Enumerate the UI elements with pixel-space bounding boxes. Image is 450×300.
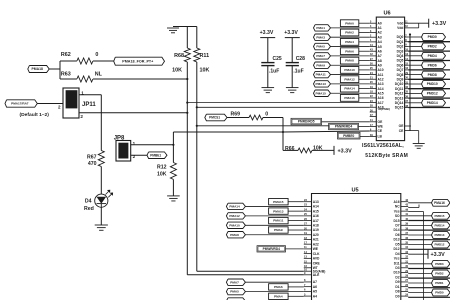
U6 pin DQ5 (pin 14) stub	[405, 60, 409, 62]
wire JP11 pin1 down to R67	[100, 95, 102, 151]
U5 pin D12 (pin 34) stub	[401, 248, 408, 250]
svg-text:PMA6: PMA6	[274, 285, 283, 289]
net flag PMA9	[269, 227, 289, 233]
wire U5 data to edge y=287.7	[408, 287, 450, 289]
svg-text:PMA4: PMA4	[274, 294, 283, 298]
wire JP8 pin1 up to CE net	[172, 132, 174, 145]
power +3.3V (U6 Vdd)	[428, 19, 430, 28]
wire row A17 from W1	[187, 102, 369, 104]
U6 pin DQ13 (pin 36) stub	[405, 97, 409, 99]
U5 pin A18 (pin 27) stub	[304, 224, 312, 226]
U5 pin D3 (pin 30) stub	[401, 267, 408, 269]
net flag PMA17/RA7	[5, 100, 37, 107]
net flag PMA5	[226, 288, 245, 294]
U6 pin DQ7 (pin 16) stub	[405, 69, 409, 71]
U5 pin A4 (pin 5) stub	[304, 295, 312, 297]
U5 pin Vcc (pin 32) stub	[401, 257, 408, 259]
ground (C25)	[262, 87, 275, 89]
svg-text:DQ2: DQ2	[397, 45, 404, 49]
svg-text:DQ12: DQ12	[395, 92, 404, 96]
U5 pin D9 (pin 27) stub	[401, 281, 408, 283]
svg-text:CRE: CRE	[313, 261, 321, 265]
resistor R67 470	[98, 151, 104, 167]
wire LED to ground	[100, 207, 102, 225]
U6 right control pin OE stub	[405, 125, 411, 127]
svg-text:A16: A16	[394, 200, 400, 204]
wire U5 data to edge y=249.3	[408, 248, 450, 250]
resistor R69 0	[227, 117, 249, 119]
net flag PMA13	[314, 81, 331, 87]
svg-text:C28: C28	[296, 56, 305, 62]
net flag PMA9	[314, 62, 331, 68]
wire W1 vertical (PMA17 net)	[186, 62, 188, 275]
net flag PMD14	[408, 102, 421, 104]
svg-text:A9: A9	[378, 63, 382, 67]
svg-text:R62: R62	[61, 52, 71, 58]
svg-text:D5: D5	[395, 242, 399, 246]
ground (top)	[173, 26, 197, 28]
U6 pin A14 (pin 19) stub	[370, 88, 377, 90]
wire PMD3 to edge	[408, 50, 450, 52]
wire U5 data to edge y=220.5	[408, 220, 450, 222]
svg-text:D9: D9	[395, 280, 399, 284]
svg-text:PMD10: PMD10	[427, 82, 438, 86]
net label PMA0	[340, 20, 358, 27]
svg-text:IS61LV25616AL,: IS61LV25616AL,	[362, 143, 404, 149]
svg-text:A12: A12	[378, 77, 384, 81]
svg-text:PMA16: PMA16	[434, 201, 445, 205]
svg-text:PMA12: PMA12	[344, 77, 355, 81]
svg-text:D10: D10	[394, 271, 400, 275]
ground (R12)	[167, 195, 180, 197]
net flag PMA4	[269, 293, 289, 299]
U6 pin DQ8 (pin 29) stub	[405, 74, 409, 76]
net label PMA10	[340, 67, 358, 74]
svg-text:A6: A6	[378, 49, 382, 53]
svg-text:A21: A21	[313, 238, 319, 242]
JP8 pin1 wire	[131, 144, 174, 146]
JP11 pin1 wire	[79, 94, 101, 96]
svg-text:PMA6: PMA6	[345, 49, 354, 53]
svg-text:A16: A16	[313, 214, 319, 218]
wire CE net horizontal to U6	[173, 131, 283, 133]
wire PMD11 to edge	[408, 88, 450, 90]
U5 pin A15 (pin 24) stub	[304, 210, 312, 212]
U5 pin Vss (pin 44) stub	[401, 210, 408, 212]
net flag PMD14	[408, 224, 431, 226]
svg-text:PMA11: PMA11	[316, 73, 326, 77]
U6 pin A3 (pin 2) stub	[370, 36, 377, 38]
net flag PMA10	[226, 222, 245, 228]
svg-text:A8: A8	[378, 59, 382, 63]
port label PMBE0	[338, 132, 361, 139]
svg-text:PMA8: PMA8	[230, 233, 239, 237]
net flag PMA15	[269, 199, 289, 205]
svg-text:PMA7: PMA7	[230, 280, 239, 284]
U6 pin DQ1 (pin 8) stub	[405, 41, 409, 43]
U6 pin A8 (pin 27) stub	[370, 60, 377, 62]
svg-text:PMA1: PMA1	[316, 26, 325, 30]
net flag PMA11	[269, 217, 289, 223]
U5 pin PMALH stub	[304, 270, 312, 272]
svg-text:D4: D4	[85, 198, 92, 204]
U5 pin WT (pin 16) stub	[304, 267, 312, 269]
U5 pin SO (pin 41) stub	[401, 215, 408, 217]
svg-text:0: 0	[265, 112, 268, 118]
U5 pin A19 (pin 20) stub	[304, 229, 312, 231]
svg-text:D13: D13	[394, 238, 400, 242]
svg-text:PMA13: PMA13	[316, 82, 327, 86]
U5 pin D0 (pin 24) stub	[401, 295, 408, 297]
net label PMA4	[340, 39, 358, 46]
U5 pin D2 (pin 28) stub	[401, 276, 408, 278]
net flag PMA3	[314, 34, 331, 40]
U5 pin WE (pin 11) stub	[304, 248, 312, 250]
svg-text:A14: A14	[313, 205, 319, 209]
U5 pin A7 (pin 8) stub	[304, 281, 312, 283]
svg-text:JP11: JP11	[82, 102, 96, 108]
svg-text:10K: 10K	[200, 67, 210, 73]
net flag PMA7	[314, 53, 331, 59]
op IC U5 body	[312, 194, 401, 300]
svg-text:PMWR/RD4: PMWR/RD4	[263, 247, 281, 251]
U6 pin DQ10 (pin 31) stub	[405, 83, 409, 85]
net flag PMA6	[269, 284, 289, 290]
U6 pin A18 (pin 28) stub	[370, 106, 377, 108]
U6 control pin WE stub	[370, 126, 377, 128]
U6 right control pin CE stub	[405, 130, 411, 132]
svg-text:C25: C25	[273, 56, 282, 62]
U5 pin A22 (pin 17) stub	[304, 243, 312, 245]
U6 pin A4 (pin 1) stub	[370, 41, 377, 43]
wire W2 vertical (PMA18 net)	[196, 62, 198, 271]
svg-text:Vss: Vss	[394, 209, 400, 213]
U5 pin D1 (pin 26) stub	[401, 286, 408, 288]
net label PMA16	[340, 95, 358, 102]
svg-text:+3.3V: +3.3V	[432, 21, 447, 27]
svg-text:D2: D2	[395, 275, 399, 279]
svg-text:D12: D12	[394, 247, 400, 251]
svg-text:PMA14: PMA14	[229, 205, 240, 209]
net flag PMA8	[226, 232, 245, 238]
capacitor C25 .1uF	[261, 62, 274, 64]
U5 pin A16 (pin 42) stub	[401, 201, 408, 203]
wire row A18 from W2	[197, 106, 370, 108]
svg-text:PMD0: PMD0	[435, 291, 444, 295]
svg-text:DQ9: DQ9	[397, 78, 404, 82]
net flag PMA14	[226, 203, 245, 209]
U5 stub wire	[408, 207, 419, 209]
U6 pin DQ0 (pin 7) stub	[405, 36, 409, 38]
power +3.3V (R66 pull-up)	[333, 146, 335, 155]
U6 right Vdd pins to +3.3V	[405, 22, 429, 24]
svg-text:A5: A5	[378, 45, 382, 49]
svg-text:PMA4: PMA4	[345, 40, 354, 44]
svg-text:ALE: ALE	[313, 273, 320, 277]
U6 pin DQ11 (pin 32) stub	[405, 88, 409, 90]
JP11 pin2 wire to W1	[79, 112, 187, 114]
U6 control pin OE stub	[370, 121, 377, 123]
svg-text:D11: D11	[394, 261, 400, 265]
svg-text:.1uF: .1uF	[269, 68, 279, 74]
svg-text:WE: WE	[378, 125, 384, 129]
U5 pin D7 (pin 39) stub	[401, 224, 408, 226]
U6 pin DQ15 (pin 38) stub	[405, 107, 409, 109]
svg-text:2: 2	[58, 105, 61, 110]
svg-text:PMA14: PMA14	[344, 87, 355, 91]
svg-text:+3.3V: +3.3V	[260, 30, 274, 36]
svg-text:PMA18: PMA18	[32, 67, 43, 71]
U6 control pin CE stub	[370, 130, 377, 132]
svg-text:PMA10: PMA10	[229, 223, 240, 227]
JP8 pin2 wire	[131, 154, 147, 156]
U5 pin A14 (pin 23) stub	[304, 205, 312, 207]
wire R63 to node W1	[93, 78, 187, 80]
svg-text:PMA15: PMA15	[316, 91, 327, 95]
svg-text:DQ8: DQ8	[397, 73, 404, 77]
net flag PMD1	[408, 282, 431, 284]
resistor R63 (NL)	[60, 78, 77, 80]
svg-text:CE: CE	[399, 129, 404, 133]
net flag PMD6	[408, 64, 421, 66]
U6 pin DQ4 (pin 13) stub	[405, 55, 409, 57]
U6 pin A10 (pin 25) stub	[370, 69, 377, 71]
net flag PMD8	[408, 74, 421, 76]
wire PMD5 to edge	[408, 60, 450, 62]
U5 pin A20 (pin 19) stub	[304, 234, 312, 236]
U5 pin A16 (pin 25) stub	[304, 215, 312, 217]
net flag PMA13	[269, 208, 289, 214]
net flag PMD3	[408, 263, 431, 265]
svg-text:.1uF: .1uF	[293, 68, 303, 74]
U6 pin A7 (pin 42) stub	[370, 55, 377, 57]
svg-text:A11: A11	[378, 73, 384, 77]
svg-text:A3: A3	[378, 35, 382, 39]
svg-text:A18: A18	[378, 105, 384, 109]
port label PMRD/RD5	[291, 118, 322, 125]
svg-text:CLK: CLK	[313, 252, 320, 256]
net flag PMA15	[314, 90, 331, 97]
svg-text:PMD12: PMD12	[434, 243, 444, 247]
wire PMD9 to edge	[408, 78, 450, 80]
svg-text:Vdd: Vdd	[397, 21, 403, 25]
capacitor C28 .1uF	[286, 62, 299, 64]
svg-text:PMD0: PMD0	[428, 35, 437, 39]
svg-text:PMA9: PMA9	[316, 63, 325, 67]
resistor R66 10K	[283, 149, 298, 151]
wire U5 data to edge y=230.1	[408, 229, 450, 231]
resistor R11 10K	[196, 27, 198, 49]
svg-text:PMD15: PMD15	[434, 214, 444, 218]
wire PMD15 to edge	[408, 107, 450, 109]
svg-text:NC: NC	[395, 205, 400, 209]
svg-text:PMD14: PMD14	[434, 223, 444, 227]
svg-text:2: 2	[80, 114, 83, 119]
svg-text:A22: A22	[313, 242, 319, 246]
U5 pin NC (pin 43) stub	[401, 205, 408, 207]
net flag PMA3	[226, 298, 245, 300]
svg-text:PMA13: PMA13	[273, 209, 284, 213]
net flag PMA7	[226, 279, 245, 285]
svg-text:AVD: AVD	[313, 257, 320, 261]
svg-text:WE: WE	[313, 247, 319, 251]
svg-text:R68: R68	[174, 53, 184, 59]
svg-text:LB: LB	[378, 135, 383, 139]
svg-text:A17: A17	[378, 101, 384, 105]
svg-text:A20: A20	[313, 233, 319, 237]
svg-text:D7: D7	[395, 224, 399, 228]
svg-text:PMA15: PMA15	[273, 200, 284, 204]
svg-text:U5: U5	[352, 188, 359, 194]
svg-text:A4: A4	[378, 40, 382, 44]
svg-text:470: 470	[88, 161, 97, 167]
port label PMWR/RD4 (U5)	[257, 246, 286, 252]
svg-text:PMD13: PMD13	[434, 233, 444, 237]
net flag PMD12	[408, 244, 431, 246]
svg-text:2: 2	[133, 154, 136, 159]
U5 pin D14 (pin 38) stub	[401, 229, 408, 231]
svg-text:10K: 10K	[157, 171, 167, 177]
svg-text:PMD12: PMD12	[427, 92, 438, 96]
net flag PMD12	[408, 92, 421, 94]
wire U6 CE2 to ground	[411, 130, 419, 132]
op IC U6 body	[376, 17, 404, 141]
svg-text:A14: A14	[378, 87, 384, 91]
U6 pin A1 (pin 4) stub	[370, 27, 377, 29]
U6 pin DQ9 (pin 30) stub	[405, 78, 409, 80]
svg-text:A7: A7	[313, 280, 317, 284]
svg-text:+3.3V: +3.3V	[338, 148, 353, 154]
svg-text:NL: NL	[95, 72, 103, 78]
U5 pin A21 (pin 18) stub	[304, 238, 312, 240]
U6 pin DQ14 (pin 37) stub	[405, 102, 409, 104]
U5 pin CLK (pin 14) stub	[304, 253, 312, 255]
svg-text:PMA18_FOR_PT+: PMA18_FOR_PT+	[122, 60, 153, 64]
svg-text:0: 0	[95, 52, 98, 58]
net flag PMD2	[408, 45, 421, 47]
svg-text:PMRD/RD5: PMRD/RD5	[298, 120, 315, 124]
svg-text:D3: D3	[395, 266, 399, 270]
U5 pin D4 (pin 33) stub	[401, 253, 408, 255]
svg-text:+3.3V: +3.3V	[431, 252, 446, 258]
svg-text:PMA12: PMA12	[229, 214, 240, 218]
U6 pin A13 (pin 20) stub	[370, 83, 377, 85]
svg-text:A19: A19	[313, 228, 319, 232]
jumper JP11	[63, 88, 79, 118]
U6 pin DQ12 (pin 35) stub	[405, 92, 409, 94]
svg-text:D14: D14	[394, 228, 400, 232]
net label PMA6	[340, 48, 358, 55]
svg-text:Vdd: Vdd	[397, 26, 403, 30]
svg-text:CE: CE	[378, 129, 383, 133]
port label PMWR/RD4	[329, 123, 359, 129]
U5 pin D11 (pin 31) stub	[401, 262, 408, 264]
svg-text:PMD8: PMD8	[428, 73, 437, 77]
wire W2 to U5 PMALH pin	[197, 270, 304, 272]
net flag PMA16 (U5)	[408, 202, 431, 204]
net flag PMBE1	[147, 152, 167, 159]
U5 pin A13 (pin 22) stub	[304, 201, 312, 203]
wire PMD1 to edge	[408, 41, 450, 43]
svg-text:PMA7: PMA7	[316, 54, 325, 58]
U6 pin A11 (pin 24) stub	[370, 74, 377, 76]
net flag PMA18	[28, 66, 49, 73]
svg-text:PMA3: PMA3	[316, 35, 325, 39]
svg-text:PMA10: PMA10	[344, 68, 355, 72]
wire U5 data to edge y=268.5	[408, 268, 450, 270]
svg-text:OE: OE	[399, 124, 405, 128]
ground (LED)	[95, 224, 108, 226]
svg-text:DQ1: DQ1	[397, 40, 404, 44]
net flag PMCS1	[205, 114, 227, 121]
svg-text:OE: OE	[378, 120, 384, 124]
svg-text:R66: R66	[285, 146, 295, 152]
svg-text:512KByte SRAM: 512KByte SRAM	[365, 153, 408, 159]
svg-text:PMD3: PMD3	[435, 262, 444, 266]
U6 pin DQ3 (pin 10) stub	[405, 50, 409, 52]
svg-text:SO: SO	[395, 214, 400, 218]
net flag PMD15	[408, 215, 431, 217]
svg-text:PMA2: PMA2	[345, 31, 354, 35]
wire PMD7 to edge	[408, 69, 450, 71]
svg-text:D1: D1	[395, 285, 399, 289]
svg-text:PMBE1: PMBE1	[150, 153, 161, 157]
svg-text:R69: R69	[231, 112, 241, 118]
wire R69 to CE vertical	[263, 117, 283, 119]
net flag PMD2	[408, 272, 431, 274]
svg-text:Red: Red	[84, 206, 94, 212]
power +3.3V (U5 Vcc)	[408, 253, 428, 255]
svg-text:DQ4: DQ4	[397, 54, 404, 58]
wire U5 data to edge y=239.7	[408, 239, 450, 241]
svg-text:DQ6: DQ6	[397, 63, 404, 67]
U5 right vertical bus	[408, 211, 423, 213]
U5 pin D5 (pin 35) stub	[401, 243, 408, 245]
port label PMWR/RD4 wire from W2	[197, 125, 329, 127]
U5 pin D15 (pin 40) stub	[401, 220, 408, 222]
svg-text:A4: A4	[313, 294, 317, 298]
U5 pin D8 (pin 25) stub	[401, 290, 408, 292]
svg-text:DQ11: DQ11	[395, 87, 404, 91]
net flag PMA11	[314, 71, 331, 77]
U6 control pin LB stub	[370, 136, 377, 138]
svg-text:A1: A1	[378, 26, 382, 30]
U6 pin A17 (pin 23) stub	[370, 102, 377, 104]
wire PMD13 to edge	[408, 97, 450, 99]
net flag PMD0	[408, 36, 421, 38]
wire U5 data to edge y=278.1	[408, 277, 450, 279]
U6 pin A0 (pin 5) stub	[370, 22, 377, 24]
resistor R68 10K	[186, 27, 188, 49]
net label PMA2	[340, 29, 358, 36]
svg-text:PMBE0: PMBE0	[343, 134, 354, 138]
svg-text:A2: A2	[378, 31, 382, 35]
svg-text:DQ15: DQ15	[395, 106, 404, 110]
svg-text:A6: A6	[313, 285, 317, 289]
U6 pin A15 (pin 18) stub	[370, 92, 377, 94]
U5 pin A6 (pin 7) stub	[304, 286, 312, 288]
svg-text:A17: A17	[313, 219, 319, 223]
svg-text:DQ3: DQ3	[397, 49, 404, 53]
U6 control pin 36 stub	[370, 111, 377, 113]
svg-text:1: 1	[133, 141, 136, 146]
svg-text:PMA17/RA7: PMA17/RA7	[11, 102, 29, 106]
svg-text:10K: 10K	[172, 67, 182, 73]
svg-text:D4: D4	[395, 252, 399, 256]
svg-text:D8: D8	[395, 290, 399, 294]
svg-text:PMA16: PMA16	[344, 96, 355, 100]
wire U5 data to edge y=297.3	[408, 296, 450, 298]
